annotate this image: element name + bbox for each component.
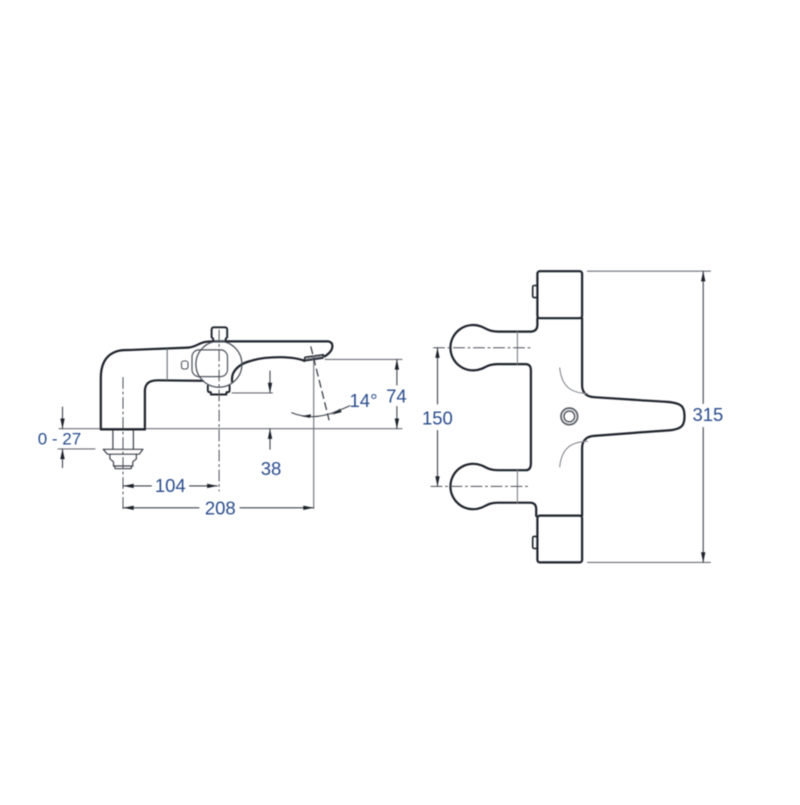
svg-text:150: 150 (422, 407, 453, 428)
bottom block side tab (533, 536, 538, 548)
aerator outlet (304, 355, 323, 361)
cartridge centerline (218, 330, 220, 491)
dim 315 reference lines (588, 270, 711, 272)
arm underside and column right edge (145, 380, 203, 429)
svg-text:0 - 27: 0 - 27 (38, 430, 81, 449)
74 top reference line (325, 358, 402, 360)
angle dashed line 14 deg (311, 347, 329, 420)
mounting shank (112, 431, 114, 449)
dim 315 (702, 271, 704, 403)
faucet body outline (101, 341, 333, 429)
shank centerline (122, 378, 124, 511)
svg-text:38: 38 (261, 458, 282, 479)
body joint line (166, 349, 168, 381)
svg-text:315: 315 (692, 404, 723, 425)
inner arc bottom (560, 441, 588, 467)
angle arc (292, 411, 338, 417)
spout underside (232, 357, 304, 382)
arc arrowhead left (302, 414, 312, 418)
dim 150 (437, 348, 439, 404)
dim 104 (124, 485, 152, 487)
arrowhead on dashed line (332, 409, 342, 415)
top knob (212, 327, 228, 341)
inner arc top (560, 368, 588, 394)
dim 0-27 arrows (62, 407, 64, 429)
svg-text:14°: 14° (350, 390, 378, 411)
cartridge circle (196, 341, 242, 387)
svg-text:208: 208 (205, 497, 236, 518)
spout tip vertical reference (313, 356, 315, 509)
cartridge side tab (182, 361, 189, 369)
cartridge body (192, 350, 228, 377)
cartridge retainer below body (208, 386, 230, 395)
knob centerline bottom (431, 485, 531, 487)
dim 208 (124, 507, 200, 509)
dim 38 (232, 392, 273, 394)
mixer body with two knobs (450, 318, 537, 516)
knob neck joint lines (516, 332, 518, 365)
bottom outlet block (537, 516, 582, 563)
deck reference line (59, 428, 402, 430)
body right edge and wall bracket tongue (582, 318, 684, 515)
top inlet block (537, 271, 582, 318)
flange top reference line (58, 448, 95, 450)
flange washer (103, 449, 143, 454)
svg-text:104: 104 (155, 475, 186, 496)
leader to 14deg text (339, 406, 350, 411)
fixing hole (561, 408, 578, 425)
dim 74 (396, 359, 398, 385)
top block side tab (533, 286, 538, 298)
svg-text:74: 74 (386, 385, 407, 406)
locking nut (110, 454, 136, 466)
knob centerline top (434, 347, 531, 349)
